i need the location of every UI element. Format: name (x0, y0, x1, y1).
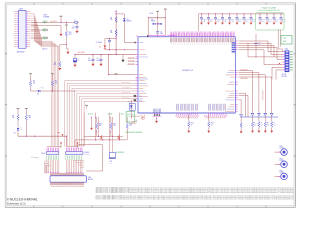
svg-text:R6: R6 (55, 81, 57, 83)
wire clamp bottom (148, 35, 175, 37)
svg-text:47k: 47k (139, 101, 142, 103)
svg-text:R12: R12 (211, 122, 214, 124)
svg-text:100n: 100n (88, 60, 91, 62)
net label RESET (43, 29, 48, 32)
label SB_B (241, 77, 248, 79)
svg-text:TP1: TP1 (283, 38, 286, 40)
ground G4 (90, 117, 93, 130)
connector CN7 pin numbers (14, 12, 30, 47)
wire clamp top (148, 17, 166, 18)
power flag TP8 (57, 132, 63, 136)
ic U5 top pin names (170, 38, 234, 45)
wire IC to CN3 5 (239, 50, 283, 65)
capacitor C5 (105, 38, 116, 50)
wire ladder vertical (116, 11, 125, 55)
svg-text:10nF: 10nF (258, 44, 261, 46)
jack J3 (275, 170, 288, 179)
label CN3 bottom (282, 73, 287, 78)
svg-text:R10: R10 (69, 32, 72, 34)
resistor R19 red (118, 135, 120, 140)
svg-text:R14: R14 (113, 123, 116, 125)
wire CN7 GND (31, 37, 47, 39)
svg-text:R: R (267, 123, 268, 125)
junction dots CN4 (47, 171, 83, 174)
svg-text:TP8: TP8 (57, 132, 60, 134)
ground G5 (58, 67, 61, 70)
power label +5V (77, 52, 85, 54)
connector CN7 pins (17, 12, 29, 47)
label R11 (191, 122, 194, 126)
ic U5 left SB pins (128, 57, 139, 64)
connector CN9 body (46, 152, 59, 155)
svg-text:U6: U6 (129, 102, 131, 104)
ic U5 bottom pin names group1 (177, 104, 198, 111)
tp green box (281, 36, 292, 45)
wire morpho right link (78, 145, 103, 171)
svg-text:R7: R7 (12, 115, 14, 117)
wire clamp sides (148, 18, 165, 35)
net label E5V red (51, 20, 57, 22)
svg-text:CN7: CN7 (19, 8, 24, 10)
svg-text:R: R (261, 123, 262, 125)
drive net labels green (88, 113, 124, 115)
svg-text:R11: R11 (191, 122, 194, 124)
svg-text:R: R (254, 123, 255, 125)
svg-text:L1: L1 (74, 20, 76, 22)
decoupling cap labels (0, 0, 1, 1)
resistor R5 (29, 80, 31, 86)
svg-text:R13: R13 (99, 123, 102, 125)
svg-text:JP1 MORPHO: JP1 MORPHO (116, 152, 125, 154)
wire sense2 (239, 95, 248, 117)
led D6 red (141, 115, 145, 120)
svg-text:0.2: 0.2 (274, 125, 276, 127)
wire dashed box down (278, 30, 282, 52)
label R12 (211, 122, 214, 126)
note text green (259, 7, 280, 12)
subtitle text (7, 201, 26, 205)
connector CN4 body (50, 176, 87, 182)
label mode green (126, 132, 142, 134)
svg-text:49.9: 49.9 (69, 34, 72, 36)
resistor R18 red (100, 135, 102, 140)
label CN4 (88, 177, 93, 181)
svg-text:R8: R8 (29, 115, 31, 117)
wire sense1 (239, 93, 246, 117)
svg-text:D4: D4 (14, 133, 16, 135)
label C2 (77, 59, 79, 61)
wire R2 branch (60, 45, 67, 62)
ic U5 part label (182, 70, 194, 72)
svg-text:10k: 10k (110, 19, 113, 21)
label R8 (29, 115, 32, 119)
no-fit cross (279, 63, 281, 65)
capacitor C4 (99, 55, 102, 67)
decoupling capacitors C5-C16 (200, 13, 286, 24)
svg-text:CN8: CN8 (43, 14, 47, 16)
connector CN7 body (19, 10, 27, 48)
junction dots +5V rail (74, 54, 116, 55)
svg-text:OUT1B: OUT1B (279, 172, 283, 174)
ic U6 small (129, 102, 135, 111)
label D3 (37, 94, 39, 96)
testpoint TP5 (51, 73, 54, 80)
svg-text:R: R (274, 123, 275, 125)
ic U5 bottom net names group2 (204, 116, 227, 118)
wire cluster A (31, 87, 75, 92)
label C1 (72, 26, 75, 30)
label D6 (130, 120, 137, 123)
testpoint TP10 (164, 9, 167, 18)
svg-text:MOTOR: MOTOR (282, 76, 287, 78)
wire CN7 RESET (31, 26, 47, 30)
wire morpho to CN4 (45, 160, 85, 174)
sense cell Q4 (270, 113, 275, 132)
wire IC to CN3 4 (239, 48, 283, 60)
junction dots CN7 nets (44, 22, 48, 39)
wire drive h2 (75, 139, 127, 140)
diode D5b (159, 23, 162, 25)
label SB_A (241, 69, 248, 71)
connector CN7 sublabel (17, 51, 25, 54)
connector CN3 body (285, 50, 290, 72)
ic U5 bottom net names group1 (176, 116, 200, 118)
wire out3 (239, 75, 266, 113)
transistor Q5 (239, 100, 243, 134)
bus entries block (153, 109, 162, 117)
label CN7 bottom right (42, 49, 48, 51)
label VDD (150, 13, 154, 15)
svg-text:10k: 10k (33, 82, 36, 84)
svg-text:R3: R3 (110, 17, 112, 19)
label R3 (110, 17, 113, 21)
led D4 (17, 121, 22, 131)
svg-text:R4: R4 (110, 30, 112, 32)
wire bus from CN7 to +5V rail (31, 14, 59, 147)
sheet outer border (5, 3, 295, 207)
connector CN10 body (65, 152, 83, 155)
wire out4 (239, 77, 272, 113)
ground G6 (66, 48, 69, 54)
diode D1 (123, 14, 136, 43)
testpoint TP11 (85, 105, 88, 109)
wire CN7 IOREF (31, 21, 45, 23)
svg-text:CN3: CN3 (285, 48, 288, 50)
mode select box (126, 112, 135, 122)
svg-text:CN7 (2): CN7 (2) (42, 49, 48, 51)
power flag F2 (77, 142, 79, 148)
svg-text:D1: D1 (127, 19, 129, 21)
ic pin stub x137 (136, 35, 138, 37)
wire fan IC-left to morpho bus (65, 81, 136, 147)
ic U5 right pins (235, 41, 237, 111)
wire +5V rail (75, 54, 136, 56)
svg-text:0.2: 0.2 (261, 125, 263, 127)
label R4 (110, 30, 113, 34)
connector CN7 label (19, 8, 24, 10)
svg-text:C4: C4 (97, 58, 99, 60)
wire led (130, 100, 137, 122)
ic U5 bottom pin names group2 (209, 104, 226, 111)
wire decoupling rail (199, 14, 284, 31)
fan wire net labels (122, 82, 130, 98)
svg-text:100n: 100n (97, 60, 100, 62)
label C4 (97, 58, 100, 62)
resistor R7 (17, 114, 19, 120)
ic U5 bottom pins (177, 113, 226, 115)
svg-text:47k: 47k (139, 96, 142, 98)
wire VDD branch (108, 55, 135, 76)
label D1 (127, 19, 132, 23)
resistor R3 (115, 16, 117, 22)
svg-text:C2: C2 (77, 59, 79, 61)
svg-text:L6206PD x2: L6206PD x2 (182, 70, 194, 72)
capacitor C2 polarized (73, 55, 76, 67)
jumper SB16 (134, 99, 142, 102)
testpoint TP4 (29, 73, 32, 80)
ic U5 body (138, 37, 235, 113)
svg-text:10k: 10k (55, 82, 58, 84)
ground G1 (45, 26, 63, 37)
svg-text:POWER: POWER (43, 17, 50, 19)
connector CN4 hatch bottom (51, 182, 84, 186)
svg-text:R2: R2 (54, 62, 56, 64)
label R7 (12, 115, 15, 119)
svg-text:10k: 10k (99, 125, 101, 127)
net label GND (43, 37, 48, 40)
ic U5 top pins (171, 31, 235, 36)
wire cluster B node (18, 121, 67, 147)
svg-text:10k: 10k (129, 125, 131, 127)
svg-text:R15: R15 (129, 123, 132, 125)
wire out1 (239, 70, 253, 113)
connector CN3 pins (282, 52, 284, 70)
morpho header pins (47, 148, 83, 152)
morpho green labels A (47, 155, 59, 159)
label st morpho (31, 152, 44, 159)
label CN10 right (84, 151, 90, 156)
wire IC to CN3 3 (238, 43, 283, 57)
wire TP1 node (45, 22, 75, 23)
wire drive v left (75, 140, 84, 146)
svg-text:0.2: 0.2 (254, 125, 256, 127)
testpoint TP7 (25, 108, 28, 114)
resistor R2 (53, 61, 61, 67)
svg-text:ARDUINO: ARDUINO (17, 51, 25, 54)
wire out2 (239, 73, 259, 114)
svg-text:10k: 10k (29, 117, 32, 119)
led D3 (38, 87, 44, 93)
title text (7, 197, 38, 201)
capacitor C3 (91, 55, 94, 67)
wire drive h1 (84, 136, 123, 137)
resistors R13-R15 (96, 117, 129, 140)
wire clamp mid (155, 18, 159, 32)
connector CN4 hatch top (51, 173, 84, 176)
wire sense rail (241, 116, 278, 118)
wire CN3 bottom pins (272, 67, 282, 79)
power flag F1 (60, 142, 62, 148)
svg-text:Schematic (1/1): Schematic (1/1) (7, 201, 26, 205)
svg-text:C5 100nF: C5 100nF (96, 42, 102, 44)
wire morpho top (47, 145, 78, 147)
svg-text:10k: 10k (110, 32, 113, 34)
label D5 (151, 19, 155, 23)
svg-text:CN4: CN4 (88, 177, 91, 179)
resistor R4 (115, 29, 117, 35)
resistor R11 (187, 114, 190, 133)
label C6 (160, 32, 163, 36)
svg-text:CN2: CN2 (109, 161, 112, 163)
svg-text:10k: 10k (12, 117, 15, 119)
testpoint TP3 (115, 73, 118, 76)
label C5 (96, 42, 102, 44)
label Y1 (109, 152, 124, 164)
testpoint TP1 (60, 16, 63, 22)
ic U5 left pins (136, 43, 138, 102)
sense cell Q2 (257, 113, 262, 132)
sense cell Q3 (264, 113, 269, 132)
ground G3 (155, 117, 158, 123)
svg-text:10k: 10k (113, 125, 115, 127)
ic U5 left pin labels (139, 43, 148, 102)
resistor R12 (207, 114, 210, 133)
jack J1 (275, 146, 288, 155)
svg-text:JMP: JMP (109, 163, 112, 165)
disclaimer text (96, 187, 294, 201)
morpho green labels B (66, 155, 82, 159)
svg-text:RST: RST (43, 30, 46, 32)
resistor R10 (65, 22, 68, 48)
label R13 (99, 123, 132, 127)
diode D5a (153, 23, 156, 25)
svg-text:100n: 100n (160, 33, 163, 35)
svg-text:SINGLE MOTOR DRIVE: SINGLE MOTOR DRIVE (126, 132, 142, 134)
svg-text:0.2: 0.2 (267, 125, 269, 127)
ic U5 right pin labels (225, 42, 235, 111)
svg-text:X-NUCLEO-IHM04A1: X-NUCLEO-IHM04A1 (7, 197, 38, 201)
jack J2 (275, 158, 288, 167)
svg-text:BRIDGE: BRIDGE (88, 179, 93, 181)
net label under IC corner (131, 115, 140, 117)
sense cell Q1 (251, 113, 256, 132)
svg-text:49.9: 49.9 (53, 64, 56, 66)
wire sub rail (105, 49, 136, 50)
label CN3 (285, 48, 288, 50)
capacitor C6 (156, 32, 159, 36)
net label +5V (43, 21, 48, 24)
capacitor C17 (255, 34, 261, 58)
label D4 (14, 133, 16, 135)
vertical net name (262, 90, 264, 100)
ferrite L1 (74, 20, 79, 23)
svg-text:+5V BUS: +5V BUS (77, 52, 85, 54)
svg-text:R5: R5 (33, 81, 35, 83)
wire IC to CN3 2 (239, 43, 283, 54)
resistor R6 (51, 80, 53, 86)
svg-text:100n: 100n (72, 27, 75, 29)
label R6 (55, 81, 58, 85)
svg-text:D3: D3 (37, 94, 39, 96)
testpoint TP9 (156, 11, 159, 18)
jumper SB15 (134, 95, 142, 98)
dark mark top edge (147, 35, 148, 37)
wire IC to CN3 1 (239, 41, 283, 52)
svg-text:C3: C3 (88, 58, 90, 60)
testpoint TP6 (17, 108, 20, 114)
note box (256, 13, 285, 30)
svg-text:D2: D2 (99, 47, 101, 49)
border zone ticks (5, 3, 295, 207)
label C3 (88, 58, 91, 62)
label R5 (33, 81, 36, 85)
svg-text:+5V: +5V (43, 22, 46, 24)
connector CN3 net labels (290, 52, 293, 70)
sheet inner border (7, 4, 294, 205)
label CN7 power (43, 14, 50, 18)
crystal Y1 (109, 136, 115, 158)
svg-text:MORPHO: MORPHO (84, 154, 90, 156)
wire drive verticals (84, 113, 120, 146)
ground G2 dark (121, 55, 124, 63)
svg-text:D6: D6 (135, 120, 137, 122)
resistor R8 (25, 114, 27, 120)
capacitor C1 (75, 23, 78, 33)
diode D2 red mark (99, 39, 106, 50)
label R10 (69, 32, 72, 36)
